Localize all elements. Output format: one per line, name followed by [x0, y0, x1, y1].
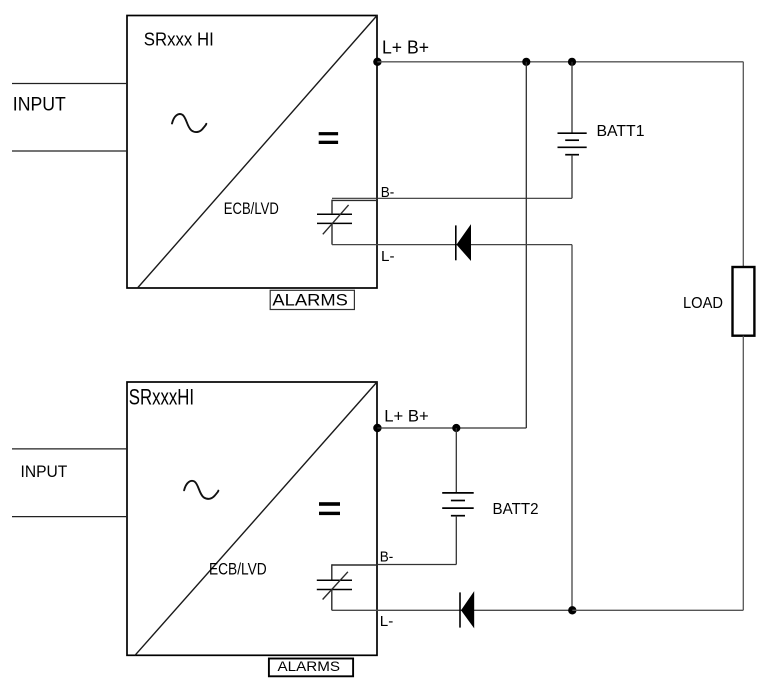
wire BATT2 top lead [455, 428, 457, 493]
svg-text:L+ B+: L+ B+ [382, 37, 429, 57]
svg-text:INPUT: INPUT [21, 462, 68, 481]
wire U2 L- [332, 609, 573, 611]
svg-text:B-: B- [380, 549, 394, 566]
wire U1 B- [332, 197, 572, 199]
wire rail down to U2 L+ [525, 62, 527, 428]
svg-text:ALARMS: ALARMS [278, 659, 341, 674]
svg-text:BATT2: BATT2 [493, 501, 539, 518]
svg-text:BATT1: BATT1 [597, 123, 645, 140]
node U2 L+ junction [373, 424, 381, 432]
wire U1 L- down to bottom rail [571, 245, 573, 611]
wire U2 L+ to rail riser [377, 427, 526, 429]
wire U1 L- [332, 244, 572, 246]
node rail junction to BATT1 [568, 58, 576, 66]
wire U2 input line 2 [12, 516, 127, 518]
node bottom rail junction [568, 606, 576, 614]
svg-text:INPUT: INPUT [13, 95, 66, 116]
wire right rail top (positive to load) [742, 62, 744, 267]
svg-text:LOAD: LOAD [683, 295, 723, 312]
load LOAD [733, 267, 755, 336]
wire BATT2 bottom lead [455, 516, 457, 565]
battery BATT2 [442, 493, 474, 516]
svg-text:B-: B- [381, 184, 395, 201]
svg-text:ECB/LVD: ECB/LVD [224, 199, 279, 218]
svg-text:L+ B+: L+ B+ [384, 407, 429, 426]
LVD contactor K1 [317, 200, 377, 245]
wire bottom negative rail [572, 609, 743, 611]
wire U1 input line 1 [12, 83, 127, 85]
battery BATT1 [558, 133, 587, 155]
AC sine symbol U2 [184, 481, 218, 499]
wire right rail bottom (load to negative rail) [742, 336, 744, 611]
wire BATT1 bottom lead [571, 155, 573, 199]
svg-text:L-: L- [380, 613, 394, 630]
ALARMS box U2 [269, 659, 353, 677]
DC symbol U1 (equals sign) [319, 132, 338, 144]
rectifier U2 diagonal [135, 382, 377, 655]
DC symbol U2 (equals sign) [319, 502, 340, 515]
diode D2 [460, 591, 474, 628]
svg-text:SRxxx HI: SRxxx HI [144, 30, 214, 50]
wire BATT1 top lead [571, 62, 573, 133]
svg-text:SRxxxHI: SRxxxHI [129, 384, 194, 409]
svg-text:ALARMS: ALARMS [272, 290, 348, 309]
rectifier U1 box [127, 16, 377, 289]
rectifier U2 box [127, 382, 377, 655]
AC sine symbol U1 [172, 114, 206, 132]
svg-text:L-: L- [381, 248, 395, 265]
ALARMS box U1 [270, 290, 354, 309]
rectifier U1 diagonal [138, 16, 378, 289]
wire top positive rail [377, 61, 743, 63]
LVD contactor K2 [317, 564, 377, 610]
node U1 L+ junction [373, 58, 381, 66]
svg-text:ECB/LVD: ECB/LVD [209, 559, 267, 578]
wire U2 input line 1 [12, 448, 127, 450]
diode D1 [456, 224, 471, 261]
node BATT2 junction [452, 424, 460, 432]
node rail junction to U2 [522, 58, 530, 66]
wire U1 input line 2 [12, 150, 127, 152]
wire U2 B- [377, 564, 456, 566]
